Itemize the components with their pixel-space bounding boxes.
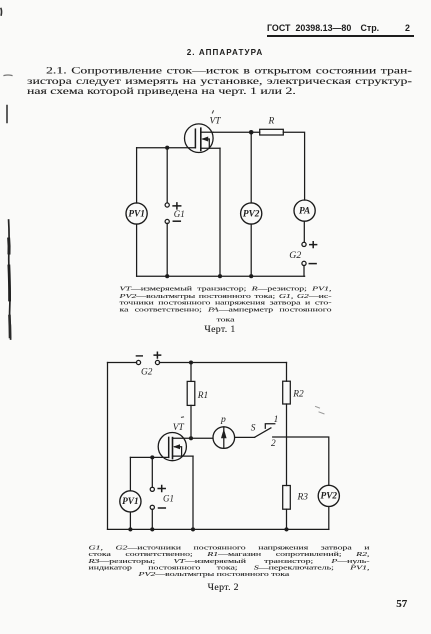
voltmeter PV1 (fig1) <box>126 203 147 224</box>
terminal G1 minus (fig2) <box>150 505 154 509</box>
node PV1 bottom junction (fig2) <box>128 527 132 531</box>
wire drain to resistor (fig1) <box>213 131 260 133</box>
label minus G1 (fig1) <box>173 220 180 222</box>
label plus G2 (fig2) <box>154 352 160 358</box>
wire PV2 branch upper <box>250 132 252 203</box>
wire contact 2 to PV2 corner <box>273 437 329 485</box>
node PV2 bottom junction <box>249 274 253 278</box>
wire G1 branch upper <box>166 148 168 203</box>
node R1 top junction (fig2) <box>189 360 193 364</box>
node R3 bottom junction (fig2) <box>284 527 288 531</box>
caption under fig 1 <box>120 286 332 324</box>
node source bottom junction (fig2) <box>191 527 195 531</box>
svg-text:p: p <box>220 414 226 425</box>
svg-text:R1: R1 <box>197 391 208 401</box>
voltmeter PV2 (fig2) <box>318 485 339 506</box>
ammeter PA (fig1) <box>294 200 315 221</box>
label minus G2 (fig2) <box>136 355 142 357</box>
svg-text:2: 2 <box>271 439 276 449</box>
svg-text:G2: G2 <box>289 250 301 261</box>
label minus G1 (fig2) <box>159 507 166 509</box>
voltmeter PV1 (fig2) <box>120 491 141 512</box>
wire G2 to bottom <box>303 266 305 277</box>
resistor R3 (fig2) <box>283 486 291 510</box>
page number 57 <box>396 598 416 610</box>
terminal G1 plus (fig2) <box>150 487 154 491</box>
Черт. 1 <box>160 324 280 335</box>
switch S contact 1 (fig2) <box>265 424 275 429</box>
header: ГОСТ 20398.13-80 Стр. 2 <box>267 23 415 33</box>
svg-text:PV1: PV1 <box>122 497 139 507</box>
svg-text:VT: VT <box>173 423 185 433</box>
wire R3 lower lead <box>286 509 288 529</box>
wire R2 to R3 <box>286 404 288 486</box>
svg-text:PV1: PV1 <box>128 209 145 219</box>
wire bottom bus (fig1) <box>137 275 305 277</box>
resistor R1 (fig2) <box>187 381 195 405</box>
node gate junction (fig1) <box>165 146 169 150</box>
node R1 drain junction (fig2) <box>189 436 193 440</box>
wire PV1 branch lower (fig2) <box>129 512 131 529</box>
transistor VT (fig2) <box>158 433 213 461</box>
wire bottom bus (fig2) <box>108 528 329 530</box>
wire left edge (fig2) <box>107 363 109 530</box>
wire resistor to right corner <box>283 132 304 200</box>
scan artifact left edge <box>0 9 3 16</box>
terminal G2 minus (fig2) <box>136 360 140 364</box>
caption under fig 2 <box>89 545 370 578</box>
wire R1 upper lead <box>190 363 192 382</box>
node G1 gate junction (fig2) <box>150 455 154 459</box>
wire PV2 lower lead <box>328 507 330 530</box>
node G1 bottom junction <box>165 274 169 278</box>
wire G1 branch lower (fig2) <box>151 509 153 529</box>
null indicator P (fig2) <box>213 427 235 449</box>
switch S blade (fig2) <box>255 428 271 437</box>
paragraph 2.1 <box>27 66 412 96</box>
svg-text:S: S <box>251 423 256 433</box>
wire G1 branch upper (fig2) <box>151 457 153 487</box>
section title <box>120 48 330 57</box>
terminal G2 plus (fig2) <box>155 360 159 364</box>
terminal G2 plus (fig1) <box>302 242 306 246</box>
node source bottom junction (fig1) <box>218 274 222 278</box>
wire R2 upper lead (fig2) <box>286 363 288 382</box>
node drain junction (fig1) <box>249 130 254 135</box>
svg-text:1: 1 <box>274 415 279 425</box>
wire top bus right (fig2) <box>159 362 286 364</box>
label plus G1 (fig2) <box>158 486 165 492</box>
label plus G2 (fig1) <box>310 242 317 248</box>
wire VT source down (fig2) <box>192 456 194 529</box>
resistor R2 (fig2) <box>283 381 291 404</box>
svg-text:PV2: PV2 <box>321 492 338 502</box>
svg-text:PA: PA <box>299 206 310 216</box>
terminal G2 minus (fig1) <box>302 261 306 265</box>
terminal G1 minus (fig1) <box>165 219 169 223</box>
wire PA to G2 terminal <box>303 221 305 242</box>
wire PV2 branch lower <box>250 224 252 276</box>
wire P to switch pole <box>235 436 255 438</box>
svg-text:R: R <box>268 117 275 127</box>
wire top bus left (fig2) <box>108 362 137 364</box>
svg-text:G2: G2 <box>141 368 153 378</box>
svg-text:G1: G1 <box>174 209 185 219</box>
svg-text:VT: VT <box>210 117 222 127</box>
voltmeter PV2 (fig1) <box>241 203 262 224</box>
wire PV1 branch upper (fig2) <box>129 457 131 490</box>
svg-text:R3: R3 <box>297 492 309 502</box>
svg-text:G1: G1 <box>163 493 174 503</box>
terminal G1 plus (fig1) <box>165 203 169 207</box>
wire PV1 branch upper <box>136 148 138 203</box>
wire gate lead (fig2) <box>130 456 168 458</box>
node G1 bottom junction (fig2) <box>150 527 154 531</box>
resistor R (fig1) <box>260 129 284 135</box>
wire PV1 branch lower <box>136 224 138 276</box>
wire VT source down (fig1) <box>219 148 221 276</box>
label minus G2 (fig1) <box>309 263 316 265</box>
svg-text:PV2: PV2 <box>243 209 260 219</box>
wire gate top (fig1) <box>137 147 196 149</box>
transistor VT (fig1) <box>185 124 221 153</box>
svg-text:R2: R2 <box>292 390 304 400</box>
label plus G1 (fig1) <box>173 203 181 209</box>
Черт. 2 <box>163 582 283 593</box>
wire G1 branch lower <box>166 223 168 276</box>
wire R1 lower lead <box>190 405 192 438</box>
